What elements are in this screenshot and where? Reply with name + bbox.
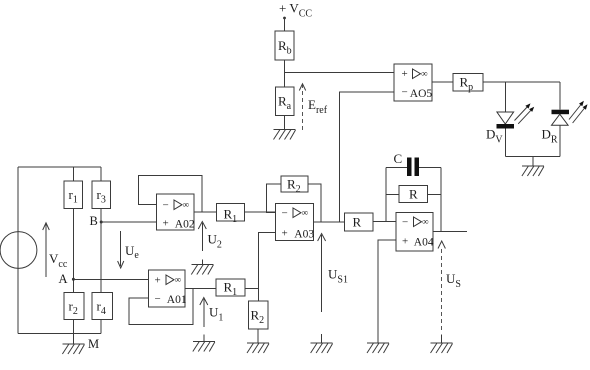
ground under US1 bbox=[311, 343, 333, 353]
op-amp A03 bbox=[276, 204, 315, 241]
wire A03 feedback left bbox=[267, 184, 281, 213]
resistor r3 bbox=[92, 181, 110, 209]
svg-text:∞: ∞ bbox=[175, 275, 181, 285]
ground at M bbox=[62, 344, 84, 354]
svg-text:+: + bbox=[402, 68, 408, 80]
wire feedback R right bbox=[428, 194, 442, 196]
wire U2 ground stem bbox=[201, 260, 203, 265]
LED DV light arrows bbox=[515, 103, 535, 123]
wire A04 feedback right vertical bbox=[440, 167, 442, 231]
arrow U1 bbox=[200, 298, 208, 328]
resistor R2 feedback bbox=[281, 176, 308, 195]
op-amp A01 bbox=[149, 270, 187, 307]
svg-text:DR: DR bbox=[542, 127, 558, 146]
ground under U2 bbox=[191, 265, 213, 275]
svg-text:A04: A04 bbox=[414, 237, 434, 249]
resistor Rb bbox=[275, 31, 294, 60]
svg-text:US: US bbox=[446, 271, 461, 290]
resistor r4 bbox=[92, 293, 112, 320]
svg-text:DV: DV bbox=[486, 127, 503, 146]
node VCC terminal dot bbox=[283, 17, 286, 20]
wire US ground stem bbox=[441, 335, 443, 344]
wire r3 top bbox=[100, 167, 102, 181]
wire R2 to ground bbox=[257, 329, 259, 343]
op-amp A04 bbox=[396, 212, 434, 251]
wire bridge left branch bbox=[17, 167, 19, 334]
wire r1 top bbox=[72, 167, 74, 181]
wire A04 feedback left vertical bbox=[385, 167, 387, 221]
svg-text:Eref: Eref bbox=[308, 97, 328, 116]
voltage source Vcc bbox=[0, 232, 37, 269]
svg-text:B: B bbox=[90, 214, 98, 228]
wire A01 output to R1 bbox=[185, 288, 216, 290]
op-amp A02 bbox=[157, 194, 195, 231]
svg-text:AO5: AO5 bbox=[410, 88, 433, 100]
wire US1 ground stem bbox=[321, 334, 323, 343]
svg-text:R: R bbox=[409, 187, 418, 202]
svg-text:A01: A01 bbox=[167, 294, 187, 306]
arrow Vcc bbox=[43, 223, 50, 277]
wire DR to bottom bbox=[559, 125, 561, 157]
ground under US bbox=[431, 343, 453, 353]
wire Ra to ground bbox=[284, 116, 286, 130]
arrow Eref bbox=[299, 84, 305, 130]
resistor R1 lower bbox=[216, 279, 245, 298]
svg-text:−: − bbox=[282, 208, 288, 220]
ground under LEDs bbox=[522, 166, 544, 176]
arrow U2 bbox=[198, 222, 206, 252]
svg-text:Vcc: Vcc bbox=[49, 251, 68, 270]
wire A01 feedback loop bbox=[129, 289, 193, 325]
svg-text:M: M bbox=[88, 337, 99, 351]
wire LED rail to ground bbox=[532, 157, 534, 166]
wire AO5 output to Rp bbox=[432, 81, 453, 83]
svg-text:−: − bbox=[155, 293, 161, 305]
svg-text:US1: US1 bbox=[328, 267, 348, 286]
arrow Ue bbox=[118, 231, 124, 268]
wire r4 bottom bbox=[100, 319, 102, 333]
wire down to DV bbox=[504, 82, 506, 112]
wire LED bottom rail bbox=[505, 156, 560, 158]
wire r2 bottom bbox=[72, 319, 74, 333]
resistor R series bbox=[345, 213, 374, 231]
resistor R feedback bbox=[399, 186, 428, 203]
wire R to A04 inverting input bbox=[373, 221, 396, 223]
svg-text:∞: ∞ bbox=[422, 217, 428, 227]
wire node A to A01 noninverting input bbox=[73, 278, 148, 280]
wire to feedback R left bbox=[386, 194, 399, 196]
wire A02 feedback loop bbox=[139, 175, 203, 212]
wire A02 output to R1 bbox=[194, 211, 217, 213]
svg-text:U1: U1 bbox=[209, 305, 223, 324]
wire Rb to Ra bbox=[284, 60, 286, 87]
wire r3 to r4 through node B bbox=[100, 209, 102, 293]
svg-text:A02: A02 bbox=[175, 219, 195, 231]
wire r1 to r2 through node A bbox=[72, 209, 74, 293]
wire DV to bottom bbox=[504, 129, 506, 157]
svg-text:+: + bbox=[163, 218, 169, 230]
node A bbox=[72, 278, 75, 281]
wire M to ground bbox=[72, 334, 74, 344]
svg-text:+: + bbox=[282, 228, 288, 240]
svg-text:C: C bbox=[394, 151, 403, 166]
svg-text:∞: ∞ bbox=[421, 69, 427, 79]
resistor R2 lower bbox=[249, 301, 269, 329]
resistor r2 bbox=[64, 293, 84, 320]
svg-text:Ue: Ue bbox=[125, 243, 139, 261]
svg-text:U2: U2 bbox=[208, 232, 222, 251]
capacitor C bbox=[386, 158, 441, 177]
LED DV bbox=[497, 112, 515, 129]
wire R1 to junction bbox=[245, 288, 259, 290]
svg-text:A03: A03 bbox=[294, 229, 314, 241]
resistor R1 upper bbox=[217, 204, 245, 226]
wire VCC stem bbox=[284, 18, 286, 31]
svg-text:+ VCC: + VCC bbox=[279, 1, 312, 20]
svg-text:+: + bbox=[155, 275, 161, 287]
wire Rp to LED branches bbox=[483, 81, 560, 83]
svg-text:−: − bbox=[163, 200, 169, 212]
wire down to DR bbox=[559, 82, 561, 110]
svg-text:−: − bbox=[402, 217, 408, 229]
svg-text:A: A bbox=[59, 272, 68, 286]
resistor r1 bbox=[64, 181, 83, 209]
arrow US bbox=[438, 241, 445, 330]
resistor Ra bbox=[276, 87, 295, 116]
LED DR bbox=[552, 110, 570, 126]
svg-text:−: − bbox=[402, 87, 408, 99]
wire Eref node to AO5 noninverting input bbox=[285, 72, 395, 74]
wire bridge bottom rail bbox=[18, 333, 101, 335]
wire A03 output to R bbox=[314, 221, 345, 223]
wire R1 to A03 inverting input bbox=[245, 211, 276, 213]
svg-text:∞: ∞ bbox=[302, 208, 308, 218]
wire U1 ground stem bbox=[203, 335, 205, 342]
ground under A04 bbox=[367, 343, 389, 353]
resistor Rp bbox=[453, 74, 483, 94]
wire junction up to A03 noninverting input bbox=[259, 232, 276, 288]
svg-text:∞: ∞ bbox=[183, 200, 189, 210]
wire junction down to R2 bbox=[258, 289, 260, 302]
ground under U1 bbox=[193, 342, 215, 352]
wire A04 output bbox=[433, 231, 467, 233]
node B bbox=[100, 221, 103, 224]
LED DR light arrows bbox=[569, 101, 588, 123]
svg-text:R: R bbox=[353, 215, 362, 230]
op-amp AO5 bbox=[394, 64, 432, 101]
wire bridge top rail bbox=[18, 166, 101, 168]
ground under Ra bbox=[274, 130, 296, 140]
svg-text:+: + bbox=[402, 236, 408, 248]
arrow US1 bbox=[318, 234, 326, 313]
ground under R2 bbox=[247, 343, 269, 353]
wire AO5 inverting input to A03 output node bbox=[340, 92, 394, 222]
wire node B to A02 noninverting input bbox=[101, 221, 156, 223]
wire A03 feedback right bbox=[308, 184, 321, 222]
wire A04 noninverting input to ground bbox=[378, 240, 396, 343]
